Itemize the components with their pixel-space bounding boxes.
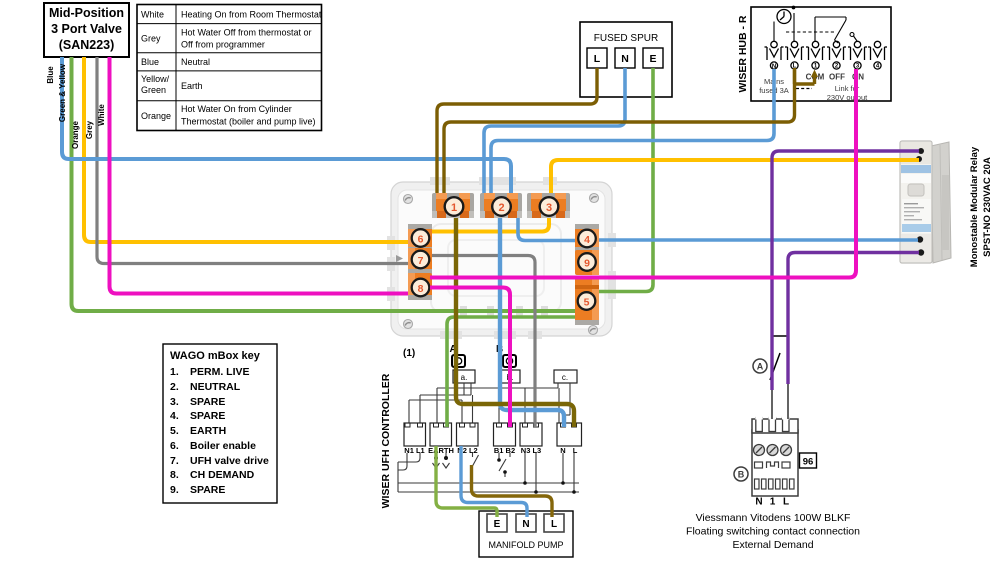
svg-text:A: A [757, 362, 764, 372]
wire brown fused spur L to connector 1 [437, 68, 597, 196]
svg-text:96: 96 [803, 457, 814, 468]
wire grey connector 7 to UFH L3 [432, 256, 535, 428]
wire blue connector 4 to relay contact [598, 238, 918, 242]
svg-text:ON: ON [852, 73, 864, 82]
svg-text:FUSED SPUR: FUSED SPUR [594, 33, 658, 44]
svg-text:3.: 3. [170, 396, 179, 408]
svg-text:8: 8 [418, 283, 424, 295]
wire blue valve to connector 2 [62, 57, 511, 196]
3-port valve box [44, 3, 129, 57]
connector 4 [575, 224, 599, 252]
svg-text:c.: c. [562, 373, 568, 382]
svg-text:6.: 6. [170, 440, 179, 452]
thin leads from purple wires into boiler plug [772, 384, 788, 419]
boiler caption text [686, 512, 860, 551]
svg-text:L: L [551, 519, 557, 530]
svg-text:Hot Water Off from thermostat: Hot Water Off from thermostat or [181, 28, 312, 38]
svg-text:9.: 9. [170, 484, 179, 496]
svg-text:NEUTRAL: NEUTRAL [190, 381, 241, 393]
svg-text:SPST-NO 230VAC 20A: SPST-NO 230VAC 20A [982, 157, 993, 257]
relay box c. [554, 370, 577, 383]
connector 2 [480, 193, 522, 218]
svg-text:Floating switching contact con: Floating switching contact connection [686, 526, 860, 538]
svg-text:White: White [97, 104, 106, 126]
wire magenta connector 8 to wiser hub ON [430, 69, 856, 278]
svg-text:Thermostat (boiler and pump li: Thermostat (boiler and pump live) [181, 117, 316, 127]
wire olive connector 1 to UFH L [456, 218, 574, 427]
svg-text:Mid-Position: Mid-Position [49, 6, 124, 20]
svg-text:SPARE: SPARE [190, 484, 225, 496]
svg-text:1.: 1. [170, 366, 179, 378]
svg-text:UFH valve drive: UFH valve drive [190, 455, 269, 467]
hub terminals N L 1 2 3 4 [765, 41, 888, 70]
wire green connector 5 to UFH earth [447, 317, 577, 427]
svg-text:3 Port Valve: 3 Port Valve [51, 22, 122, 36]
svg-text:MANIFOLD PUMP: MANIFOLD PUMP [488, 540, 563, 550]
connector 3 [527, 193, 570, 218]
svg-text:1: 1 [451, 202, 457, 214]
svg-text:Viessmann Vitodens 100W BLKF: Viessmann Vitodens 100W BLKF [696, 512, 851, 524]
node A circle and contact slash [753, 353, 780, 380]
svg-text:Hot Water On from Cylinder: Hot Water On from Cylinder [181, 104, 292, 114]
svg-text:9: 9 [584, 258, 590, 270]
svg-text:N: N [621, 53, 629, 65]
svg-text:Monostable Modular Relay: Monostable Modular Relay [969, 146, 980, 267]
svg-text:N: N [755, 497, 762, 508]
wire colour legend table [137, 5, 322, 131]
node B circle [734, 467, 748, 481]
svg-text:N3 L3: N3 L3 [521, 446, 541, 455]
junction box WAGO mBox enclosure [387, 177, 616, 339]
wire green valve earth to connector 5 [72, 57, 578, 311]
svg-text:White: White [141, 10, 164, 20]
connector 6 [408, 224, 432, 252]
UFH terminal labels [404, 446, 577, 455]
svg-text:Blue: Blue [46, 66, 55, 84]
svg-text:Heating On from Room Thermosta: Heating On from Room Thermostat [181, 10, 322, 20]
contact break tick between purple wires [773, 335, 790, 337]
svg-text:Grey: Grey [141, 34, 161, 44]
svg-text:230V output: 230V output [827, 93, 868, 102]
svg-text:Yellow/: Yellow/ [141, 74, 170, 84]
svg-text:CH DEMAND: CH DEMAND [190, 469, 255, 481]
svg-text:a.: a. [461, 373, 468, 382]
pump icon b [503, 355, 516, 367]
svg-text:Neutral: Neutral [181, 57, 210, 67]
wire blue connector 2 to connector 4 [518, 212, 576, 241]
monostable modular relay (DIN module) [900, 141, 951, 263]
svg-text:1: 1 [770, 497, 776, 508]
relay box a. [453, 370, 475, 383]
connector 5 [575, 277, 599, 325]
hub labels [806, 73, 865, 82]
svg-text:B1 B2: B1 B2 [494, 446, 515, 455]
svg-text:E: E [649, 53, 656, 65]
timer clock icon U-hub [777, 6, 795, 23]
connector 7 [408, 248, 432, 274]
connector 8 [408, 273, 432, 300]
wire green UFH earth to pump E [436, 446, 497, 517]
wire purple relay A2 to boiler L [788, 253, 919, 385]
svg-text:Off from programmer: Off from programmer [181, 40, 265, 50]
hub internal wiring [774, 13, 857, 43]
svg-text:8.: 8. [170, 469, 179, 481]
svg-text:EARTH: EARTH [190, 425, 226, 437]
svg-text:WISER UFH CONTROLLER: WISER UFH CONTROLLER [380, 373, 392, 508]
MANIFOLD PUMP box [479, 511, 573, 557]
svg-text:Blue: Blue [141, 57, 159, 67]
valve wire labels (rotated) [46, 63, 106, 149]
svg-text:5.: 5. [170, 425, 179, 437]
svg-text:Earth: Earth [181, 81, 203, 91]
svg-text:SPARE: SPARE [190, 410, 225, 422]
svg-text:EARTH: EARTH [428, 446, 454, 455]
svg-text:N: N [522, 519, 529, 530]
svg-text:E: E [494, 519, 501, 530]
svg-text:N: N [772, 64, 776, 70]
clip arrow detail on junction box [396, 255, 403, 262]
svg-text:4.: 4. [170, 410, 179, 422]
relay box b. [500, 370, 520, 383]
boiler plug connector [752, 416, 798, 496]
svg-text:3: 3 [546, 202, 552, 214]
svg-text:WAGO mBox key: WAGO mBox key [170, 350, 261, 362]
svg-text:Green & Yellow: Green & Yellow [58, 63, 67, 122]
label 96 [800, 453, 817, 468]
svg-text:Boiler enable: Boiler enable [190, 440, 256, 452]
link wire L to COM (brown) [795, 70, 819, 89]
connector 9 [575, 250, 599, 275]
wire grey valve to connector 7 [97, 57, 412, 264]
UFH terminal blocks row [404, 423, 582, 446]
svg-text:Orange: Orange [71, 120, 80, 149]
svg-text:External Demand: External Demand [732, 539, 813, 551]
svg-text:L: L [594, 53, 601, 65]
svg-text:PERM. LIVE: PERM. LIVE [190, 366, 250, 378]
wire yellow connector 6 to connector 3 [431, 218, 549, 232]
wire blue fused spur N to connector 2 [484, 68, 625, 196]
svg-text:6: 6 [418, 234, 424, 246]
svg-text:Orange: Orange [141, 111, 171, 121]
wire green fused spur E to connector 5 [598, 68, 653, 292]
wire blue thick connector 2 to UFH N [500, 218, 564, 427]
svg-text:7.: 7. [170, 455, 179, 467]
svg-text:2.: 2. [170, 381, 179, 393]
WAGO mBox key list [163, 344, 277, 503]
svg-text:(1): (1) [403, 348, 415, 359]
svg-text:(SAN223): (SAN223) [59, 38, 115, 52]
svg-text:SPARE: SPARE [190, 396, 225, 408]
svg-text:L: L [783, 497, 789, 508]
svg-text:7: 7 [418, 255, 424, 267]
wire yellow valve orange to connector 6 [84, 57, 411, 242]
svg-text:5: 5 [584, 297, 590, 309]
svg-text:Grey: Grey [85, 120, 94, 139]
boiler terminal labels N 1 L [755, 497, 789, 508]
wire magenta connector 8 to UFH B2 [430, 288, 510, 428]
svg-text:4: 4 [584, 234, 590, 246]
wire yellow connector 3 to relay coil [551, 160, 919, 196]
connector 1 [432, 193, 474, 218]
wire blue wiser hub N to connector 2 [491, 69, 774, 196]
relay caption (rotated) [969, 146, 993, 267]
wire brown UFH L2 to pump L [472, 465, 553, 517]
svg-text:OFF: OFF [829, 73, 845, 82]
FUSED SPUR box [580, 22, 672, 97]
WISER HUB - R box [737, 7, 891, 101]
UFH lower thin wiring and buses [398, 453, 579, 492]
wire blue UFH N2 to pump N [461, 446, 527, 517]
wire brown wiser hub L to connector 1 [444, 68, 795, 196]
svg-text:Green: Green [141, 85, 166, 95]
pump icon a [452, 355, 465, 367]
svg-text:2: 2 [498, 202, 504, 214]
svg-text:WISER HUB - R: WISER HUB - R [737, 15, 749, 92]
wire magenta valve white to connector 8 [110, 57, 416, 294]
UFH thin control wiring [409, 383, 570, 423]
svg-text:B: B [738, 470, 745, 480]
wire purple relay A1 to boiler via contact A [772, 151, 919, 390]
